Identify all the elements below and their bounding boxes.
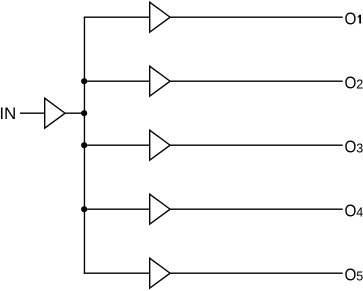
svg-text:O: O <box>345 200 357 220</box>
svg-text:4: 4 <box>356 205 363 219</box>
svg-text:O: O <box>345 136 357 156</box>
svg-text:IN: IN <box>0 104 16 123</box>
svg-text:3: 3 <box>356 141 363 155</box>
svg-text:5: 5 <box>356 269 363 283</box>
svg-text:2: 2 <box>356 77 363 91</box>
svg-text:O: O <box>345 264 357 284</box>
svg-text:O: O <box>345 72 357 92</box>
svg-text:O: O <box>345 8 357 28</box>
